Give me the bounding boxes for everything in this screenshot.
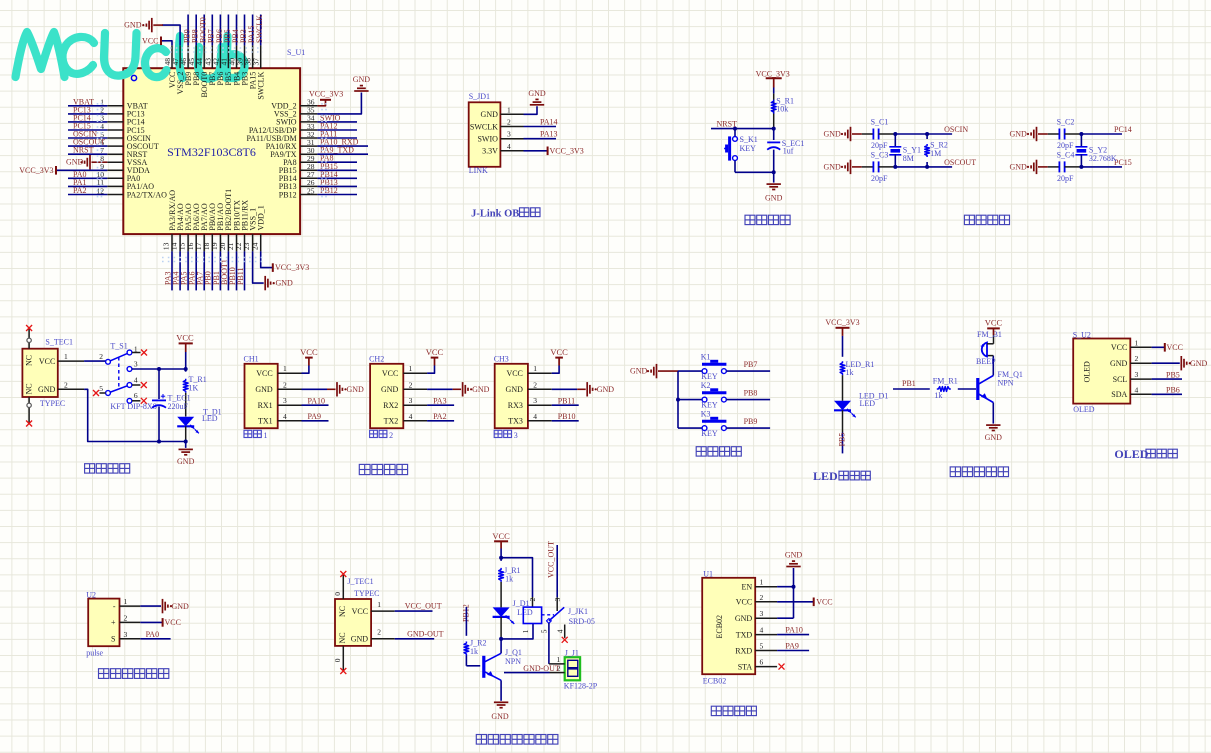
svg-text:GND: GND bbox=[735, 614, 753, 623]
svg-text:RXD: RXD bbox=[735, 646, 752, 655]
svg-text:1k: 1k bbox=[934, 391, 942, 400]
svg-text:OLED: OLED bbox=[1114, 447, 1148, 461]
svg-text:VDD_1: VDD_1 bbox=[256, 205, 265, 230]
svg-text:4: 4 bbox=[1135, 385, 1139, 394]
svg-text:GND: GND bbox=[347, 385, 365, 394]
svg-text:1: 1 bbox=[507, 105, 511, 114]
svg-text:GND: GND bbox=[276, 279, 294, 288]
svg-text:2: 2 bbox=[507, 118, 511, 127]
svg-text:NRST: NRST bbox=[73, 146, 94, 155]
svg-text:3: 3 bbox=[124, 630, 128, 639]
svg-text:GND: GND bbox=[124, 21, 142, 30]
svg-text:20pF: 20pF bbox=[1057, 141, 1074, 150]
svg-text:J_Q1: J_Q1 bbox=[505, 648, 522, 657]
svg-text:J_JK1: J_JK1 bbox=[568, 607, 588, 616]
svg-text:4: 4 bbox=[556, 629, 565, 633]
svg-text:CH3: CH3 bbox=[494, 355, 509, 364]
svg-text:GND: GND bbox=[785, 550, 803, 559]
svg-text:LED: LED bbox=[517, 608, 533, 617]
svg-text:4: 4 bbox=[760, 626, 764, 635]
svg-text:GND: GND bbox=[985, 433, 1003, 442]
svg-text:U2: U2 bbox=[86, 590, 96, 599]
svg-text:VCC: VCC bbox=[985, 318, 1003, 328]
svg-text:VCC: VCC bbox=[492, 531, 510, 541]
svg-text:2: 2 bbox=[533, 380, 537, 389]
svg-text:24: 24 bbox=[250, 242, 259, 250]
svg-text:GND: GND bbox=[506, 385, 524, 394]
svg-text:GND: GND bbox=[351, 635, 369, 644]
svg-text:3: 3 bbox=[553, 598, 562, 602]
svg-text:VCC_OUT: VCC_OUT bbox=[547, 541, 556, 578]
svg-text:NC: NC bbox=[338, 606, 347, 617]
svg-text:37: 37 bbox=[252, 58, 261, 66]
svg-text:PB1: PB1 bbox=[902, 379, 916, 388]
svg-text:FM_R1: FM_R1 bbox=[933, 376, 958, 385]
svg-text:-: - bbox=[113, 602, 116, 611]
svg-text:K1: K1 bbox=[701, 353, 711, 362]
svg-text:GND: GND bbox=[481, 110, 499, 119]
svg-text:2: 2 bbox=[1135, 354, 1139, 363]
svg-text:3.3V: 3.3V bbox=[482, 147, 498, 156]
svg-text:GND: GND bbox=[1190, 359, 1208, 368]
svg-text:20pF: 20pF bbox=[871, 174, 888, 183]
svg-text:20pF: 20pF bbox=[1057, 174, 1074, 183]
svg-text:25: 25 bbox=[307, 186, 315, 195]
svg-text:PB11: PB11 bbox=[558, 396, 576, 405]
svg-text:TYPEC: TYPEC bbox=[354, 589, 379, 598]
svg-text:RX1: RX1 bbox=[258, 401, 273, 410]
svg-text:PA13: PA13 bbox=[540, 130, 558, 139]
svg-text:RX3: RX3 bbox=[508, 401, 523, 410]
svg-text:GND: GND bbox=[177, 457, 195, 466]
svg-text:S_JD1: S_JD1 bbox=[469, 92, 490, 101]
svg-text:3: 3 bbox=[409, 396, 413, 405]
svg-text:U1: U1 bbox=[703, 569, 713, 578]
svg-text:GND: GND bbox=[1110, 359, 1128, 368]
svg-text:1k: 1k bbox=[505, 575, 513, 584]
svg-text:GND: GND bbox=[528, 89, 546, 98]
svg-text:PB9: PB9 bbox=[744, 417, 758, 426]
svg-text:220uF: 220uF bbox=[168, 402, 189, 411]
svg-text:VCC: VCC bbox=[300, 347, 318, 357]
svg-text:S: S bbox=[111, 635, 115, 644]
svg-text:PA0: PA0 bbox=[146, 630, 160, 639]
svg-text:6: 6 bbox=[134, 391, 138, 400]
svg-text:TXD: TXD bbox=[736, 630, 753, 639]
svg-text:PB6: PB6 bbox=[1166, 386, 1180, 395]
svg-text:SWCLK: SWCLK bbox=[470, 122, 498, 131]
svg-text:GND-OUT: GND-OUT bbox=[407, 629, 444, 638]
svg-text:VCC_3V3: VCC_3V3 bbox=[19, 166, 53, 175]
svg-text:1: 1 bbox=[124, 597, 128, 606]
svg-text:KFT DIP-8X8: KFT DIP-8X8 bbox=[110, 402, 156, 411]
svg-text:VCC: VCC bbox=[39, 357, 55, 366]
svg-text:5: 5 bbox=[99, 384, 103, 393]
svg-text:6: 6 bbox=[760, 658, 764, 667]
svg-text:GND: GND bbox=[824, 163, 842, 172]
svg-text:GND: GND bbox=[1010, 130, 1028, 139]
svg-text:VCC: VCC bbox=[382, 369, 398, 378]
svg-text:NPN: NPN bbox=[998, 378, 1014, 387]
svg-text:TYPEC: TYPEC bbox=[40, 399, 65, 408]
svg-text:4: 4 bbox=[283, 412, 287, 421]
svg-text:1: 1 bbox=[1135, 338, 1139, 347]
svg-text:GND: GND bbox=[66, 158, 84, 167]
svg-text:pulse: pulse bbox=[86, 648, 103, 657]
svg-text:VCC: VCC bbox=[736, 598, 752, 607]
svg-text:S_TEC1: S_TEC1 bbox=[45, 338, 73, 347]
svg-text:NC: NC bbox=[25, 355, 34, 366]
svg-text:GND: GND bbox=[824, 130, 842, 139]
svg-text:VCC: VCC bbox=[165, 618, 181, 627]
svg-text:OLED: OLED bbox=[1073, 405, 1095, 414]
svg-text:VCC_3V3: VCC_3V3 bbox=[825, 318, 859, 327]
svg-text:10k: 10k bbox=[776, 105, 788, 114]
svg-text:VCC_OUT: VCC_OUT bbox=[405, 602, 442, 611]
svg-text:20pF: 20pF bbox=[871, 141, 888, 150]
svg-text:PB12: PB12 bbox=[279, 190, 297, 199]
svg-text:1uf: 1uf bbox=[783, 147, 794, 156]
svg-text:GND: GND bbox=[630, 367, 648, 376]
svg-text:SWCLK: SWCLK bbox=[255, 15, 264, 43]
svg-text:2: 2 bbox=[389, 431, 393, 440]
svg-text:NC: NC bbox=[25, 383, 34, 394]
svg-text:1: 1 bbox=[533, 364, 537, 373]
svg-text:VCC: VCC bbox=[1111, 343, 1127, 352]
svg-text:S_K1: S_K1 bbox=[740, 135, 758, 144]
svg-text:GND-OUT: GND-OUT bbox=[523, 664, 560, 673]
svg-text:PB7: PB7 bbox=[744, 360, 758, 369]
svg-text:KEY: KEY bbox=[701, 372, 718, 381]
svg-text:4: 4 bbox=[533, 412, 537, 421]
svg-text:CH2: CH2 bbox=[369, 355, 384, 364]
svg-text:VCC_3V3: VCC_3V3 bbox=[309, 89, 343, 98]
svg-text:+: + bbox=[111, 618, 116, 627]
svg-text:1k: 1k bbox=[470, 647, 478, 656]
svg-text:4: 4 bbox=[507, 142, 511, 151]
svg-text:GND: GND bbox=[1010, 163, 1028, 172]
svg-text:VCC: VCC bbox=[426, 347, 444, 357]
svg-text:3: 3 bbox=[507, 130, 511, 139]
svg-text:LINK: LINK bbox=[469, 166, 488, 175]
svg-text:GND: GND bbox=[255, 385, 273, 394]
svg-text:1: 1 bbox=[760, 578, 764, 587]
svg-text:VCC: VCC bbox=[550, 347, 568, 357]
svg-text:J_TEC1: J_TEC1 bbox=[347, 577, 373, 586]
svg-text:GND: GND bbox=[172, 602, 190, 611]
svg-text:SWIO: SWIO bbox=[477, 135, 498, 144]
svg-text:VCC: VCC bbox=[256, 369, 272, 378]
svg-text:GND: GND bbox=[597, 385, 615, 394]
svg-text:SRD-05: SRD-05 bbox=[569, 617, 595, 626]
svg-text:TX2: TX2 bbox=[384, 417, 399, 426]
svg-text:EN: EN bbox=[742, 583, 753, 592]
svg-text:PB8: PB8 bbox=[744, 389, 758, 398]
svg-text:STM32F103C8T6: STM32F103C8T6 bbox=[167, 145, 256, 159]
svg-text:1: 1 bbox=[409, 364, 413, 373]
svg-text:PB5: PB5 bbox=[838, 433, 847, 447]
svg-text:1: 1 bbox=[521, 629, 530, 633]
svg-text:0: 0 bbox=[333, 658, 342, 662]
svg-text:GND: GND bbox=[381, 385, 399, 394]
svg-text:5: 5 bbox=[540, 629, 549, 633]
svg-text:STA: STA bbox=[738, 662, 753, 671]
svg-text:PA10: PA10 bbox=[308, 396, 326, 405]
svg-text:3: 3 bbox=[514, 431, 518, 440]
svg-text:S_U2: S_U2 bbox=[1073, 330, 1091, 339]
svg-text:GND: GND bbox=[491, 712, 509, 721]
svg-text:S_C1: S_C1 bbox=[871, 118, 889, 127]
svg-text:CH1: CH1 bbox=[244, 355, 259, 364]
svg-text:PA2/TX/AO: PA2/TX/AO bbox=[127, 190, 167, 199]
svg-text:3: 3 bbox=[1135, 370, 1139, 379]
svg-text:1K: 1K bbox=[189, 384, 199, 393]
svg-text:5: 5 bbox=[760, 642, 764, 651]
svg-text:K2: K2 bbox=[701, 381, 711, 390]
svg-text:PA2: PA2 bbox=[433, 412, 447, 421]
svg-text:PA2: PA2 bbox=[73, 186, 87, 195]
svg-text:NC: NC bbox=[338, 632, 347, 643]
svg-text:OSCIN: OSCIN bbox=[944, 125, 968, 134]
svg-text:2: 2 bbox=[64, 380, 68, 389]
svg-text:ECB02: ECB02 bbox=[703, 677, 727, 686]
svg-text:VCC: VCC bbox=[506, 369, 522, 378]
svg-text:KEY: KEY bbox=[701, 429, 718, 438]
svg-text:PC14: PC14 bbox=[1114, 125, 1132, 134]
svg-text:2: 2 bbox=[377, 628, 381, 637]
svg-text:PA9: PA9 bbox=[308, 412, 322, 421]
svg-text:VCC: VCC bbox=[176, 333, 194, 343]
svg-text:GND: GND bbox=[353, 75, 371, 84]
svg-text:VCC: VCC bbox=[816, 597, 832, 606]
svg-text:1M: 1M bbox=[930, 149, 941, 158]
svg-text:S_C2: S_C2 bbox=[1057, 118, 1075, 127]
svg-text:2: 2 bbox=[409, 380, 413, 389]
svg-text:BEEP: BEEP bbox=[976, 357, 996, 366]
svg-text:LED: LED bbox=[813, 469, 838, 483]
svg-text:LED: LED bbox=[202, 414, 218, 423]
svg-text:SCL: SCL bbox=[1113, 375, 1128, 384]
svg-text:J_J1: J_J1 bbox=[565, 649, 579, 658]
svg-text:1: 1 bbox=[64, 352, 68, 361]
svg-text:KEY: KEY bbox=[740, 144, 757, 153]
svg-text:PB5: PB5 bbox=[1166, 370, 1180, 379]
svg-text:FM_B1: FM_B1 bbox=[977, 330, 1002, 339]
svg-text:VCC: VCC bbox=[352, 607, 368, 616]
svg-text:RX2: RX2 bbox=[383, 401, 398, 410]
svg-text:S_U1: S_U1 bbox=[287, 48, 305, 57]
svg-text:3: 3 bbox=[283, 396, 287, 405]
svg-text:1: 1 bbox=[283, 364, 287, 373]
svg-text:3: 3 bbox=[760, 609, 764, 618]
svg-text:0: 0 bbox=[333, 592, 342, 596]
svg-text:2: 2 bbox=[124, 613, 128, 622]
svg-text:1: 1 bbox=[264, 431, 268, 440]
svg-text:GND: GND bbox=[472, 385, 490, 394]
svg-text:8M: 8M bbox=[903, 154, 914, 163]
svg-text:GND: GND bbox=[765, 194, 783, 203]
svg-text:4: 4 bbox=[134, 375, 138, 384]
svg-text:3: 3 bbox=[533, 396, 537, 405]
svg-text:1: 1 bbox=[377, 600, 381, 609]
svg-text:PA10: PA10 bbox=[785, 625, 803, 634]
svg-text:PA14: PA14 bbox=[540, 118, 558, 127]
svg-text:2: 2 bbox=[99, 352, 103, 361]
svg-text:NPN: NPN bbox=[505, 657, 521, 666]
svg-text:1k: 1k bbox=[846, 368, 854, 377]
svg-text:PA3: PA3 bbox=[433, 396, 447, 405]
svg-text:TX3: TX3 bbox=[508, 417, 523, 426]
svg-text:T_S1: T_S1 bbox=[110, 342, 127, 351]
svg-text:J-Link OB: J-Link OB bbox=[471, 208, 519, 219]
svg-text:3: 3 bbox=[134, 360, 138, 369]
svg-text:2: 2 bbox=[760, 593, 764, 602]
svg-text:OSCOUT: OSCOUT bbox=[944, 158, 976, 167]
svg-text:OLED: OLED bbox=[1083, 361, 1092, 383]
svg-text:LED: LED bbox=[860, 399, 876, 408]
svg-text:1: 1 bbox=[557, 655, 561, 664]
svg-text:32.768K: 32.768K bbox=[1089, 154, 1117, 163]
svg-text:S_C4: S_C4 bbox=[1057, 150, 1075, 159]
svg-text:KF128-2P: KF128-2P bbox=[564, 682, 598, 691]
svg-text:PA9: PA9 bbox=[785, 641, 799, 650]
svg-text:GND: GND bbox=[38, 385, 56, 394]
svg-text:K3: K3 bbox=[701, 410, 711, 419]
svg-text:VCC_3V3: VCC_3V3 bbox=[756, 70, 790, 79]
svg-text:PB10: PB10 bbox=[558, 412, 576, 421]
svg-text:VCC_3V3: VCC_3V3 bbox=[275, 263, 309, 272]
svg-text:TX1: TX1 bbox=[258, 417, 273, 426]
svg-text:S_C3: S_C3 bbox=[871, 150, 889, 159]
svg-text:ECB02: ECB02 bbox=[715, 615, 724, 639]
svg-text:KEY: KEY bbox=[701, 401, 718, 410]
svg-text:SWCLK: SWCLK bbox=[256, 71, 265, 99]
svg-text:SDA: SDA bbox=[1111, 390, 1127, 399]
svg-text:2: 2 bbox=[283, 380, 287, 389]
svg-text:VCC: VCC bbox=[142, 36, 158, 45]
svg-text:VCC_3V3: VCC_3V3 bbox=[550, 146, 584, 155]
svg-text:PB11: PB11 bbox=[236, 268, 245, 286]
svg-text:VCC: VCC bbox=[1167, 343, 1183, 352]
svg-text:4: 4 bbox=[409, 412, 413, 421]
